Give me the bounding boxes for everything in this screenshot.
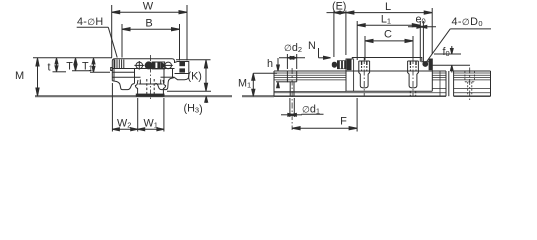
carriage left leg seal profile bbox=[112, 81, 134, 90]
dim B bbox=[122, 18, 180, 61]
dim h bbox=[267, 58, 288, 88]
centerline left view bbox=[150, 55, 152, 101]
svg-text:C: C bbox=[384, 29, 392, 41]
dim W1 bbox=[138, 118, 164, 131]
svg-text:(K): (K) bbox=[188, 71, 202, 83]
dim L bbox=[346, 1, 432, 54]
tapped hole circle left bbox=[134, 61, 144, 70]
end seal left dark bbox=[347, 59, 352, 70]
svg-text:t: t bbox=[48, 62, 51, 74]
dim T1 bbox=[82, 58, 110, 73]
dim F bbox=[292, 98, 357, 132]
rail break lines bbox=[446, 71, 454, 96]
carriage right leg seal profile bbox=[155, 78, 174, 90]
dim W2 bbox=[112, 118, 137, 131]
grease nipple left end bbox=[332, 60, 347, 69]
label 4-phiH with leader bbox=[77, 16, 118, 58]
rail right segment hidden hole bbox=[465, 71, 475, 96]
hole1 centerline bbox=[291, 68, 293, 130]
carriage side view body bbox=[346, 58, 432, 92]
svg-text:T1: T1 bbox=[82, 61, 93, 73]
rail hole 2 hidden under carriage bbox=[410, 91, 415, 96]
dim K bbox=[176, 60, 211, 91]
dim f0 bbox=[429, 46, 470, 73]
hole circle right bbox=[164, 62, 173, 69]
svg-text:(E): (E) bbox=[332, 1, 346, 13]
dim M1 bbox=[238, 73, 277, 96]
dim e0 bbox=[408, 14, 436, 62]
carriage inner leg lines bbox=[111, 60, 175, 85]
svg-text:M: M bbox=[15, 70, 24, 82]
rail groove lines bbox=[274, 71, 446, 96]
grease port dark unit center bbox=[145, 62, 164, 69]
svg-text:(H3): (H3) bbox=[184, 102, 203, 115]
label 4-phiD0 with leader bbox=[426, 16, 491, 63]
end seal right dark bbox=[429, 59, 433, 70]
svg-text:L: L bbox=[385, 1, 391, 13]
slot centerlines dashed bbox=[364, 58, 413, 96]
dim C bbox=[365, 29, 413, 61]
dim H3 bbox=[167, 91, 211, 115]
rail hidden hole dashed bbox=[147, 79, 154, 96]
svg-text:M1: M1 bbox=[238, 77, 251, 89]
svg-text:F: F bbox=[340, 116, 347, 128]
carriage cross-section outline bbox=[112, 59, 174, 81]
screw slot 2 bbox=[408, 61, 419, 88]
screw slot 1 bbox=[359, 61, 370, 88]
svg-text:f0: f0 bbox=[443, 46, 450, 58]
dim W2 W1 extension lines bbox=[112, 83, 163, 132]
dim phid2 bbox=[279, 42, 305, 69]
rail side view body bbox=[274, 71, 446, 96]
dim M bbox=[15, 58, 112, 96]
dim E bbox=[327, 1, 347, 58]
dim phid1 bbox=[281, 98, 324, 117]
svg-text:W2: W2 bbox=[117, 118, 131, 130]
svg-text:T: T bbox=[66, 61, 73, 73]
svg-text:N: N bbox=[308, 40, 316, 52]
rail shoulder line bbox=[139, 83, 163, 85]
svg-text:e0: e0 bbox=[416, 14, 426, 26]
svg-text:L1: L1 bbox=[381, 14, 391, 26]
dim t bbox=[48, 58, 67, 74]
rail counterbore hole sectioned bbox=[287, 71, 296, 96]
dim N bbox=[308, 40, 331, 59]
svg-text:B: B bbox=[145, 18, 152, 30]
svg-text:∅d2: ∅d2 bbox=[284, 42, 302, 54]
hole3 centerline bbox=[469, 68, 471, 101]
sectioned right flange bbox=[175, 62, 189, 80]
svg-text:∅d1: ∅d1 bbox=[302, 104, 320, 116]
dim L1 bbox=[357, 14, 420, 62]
baseline ground between views bbox=[242, 95, 274, 97]
svg-text:W: W bbox=[143, 1, 154, 13]
D0 hole dark bbox=[422, 61, 428, 67]
svg-text:h: h bbox=[267, 58, 273, 70]
svg-text:4-∅H: 4-∅H bbox=[77, 16, 103, 28]
svg-text:4-∅D0: 4-∅D0 bbox=[452, 16, 483, 28]
rail right segment bbox=[454, 71, 491, 96]
dim W bbox=[112, 1, 187, 61]
rail cross-section bbox=[135, 80, 165, 97]
svg-text:W1: W1 bbox=[144, 118, 158, 130]
section strips left flange bbox=[115, 60, 124, 69]
dim T bbox=[66, 58, 91, 73]
baseline ground left view bbox=[35, 95, 232, 97]
